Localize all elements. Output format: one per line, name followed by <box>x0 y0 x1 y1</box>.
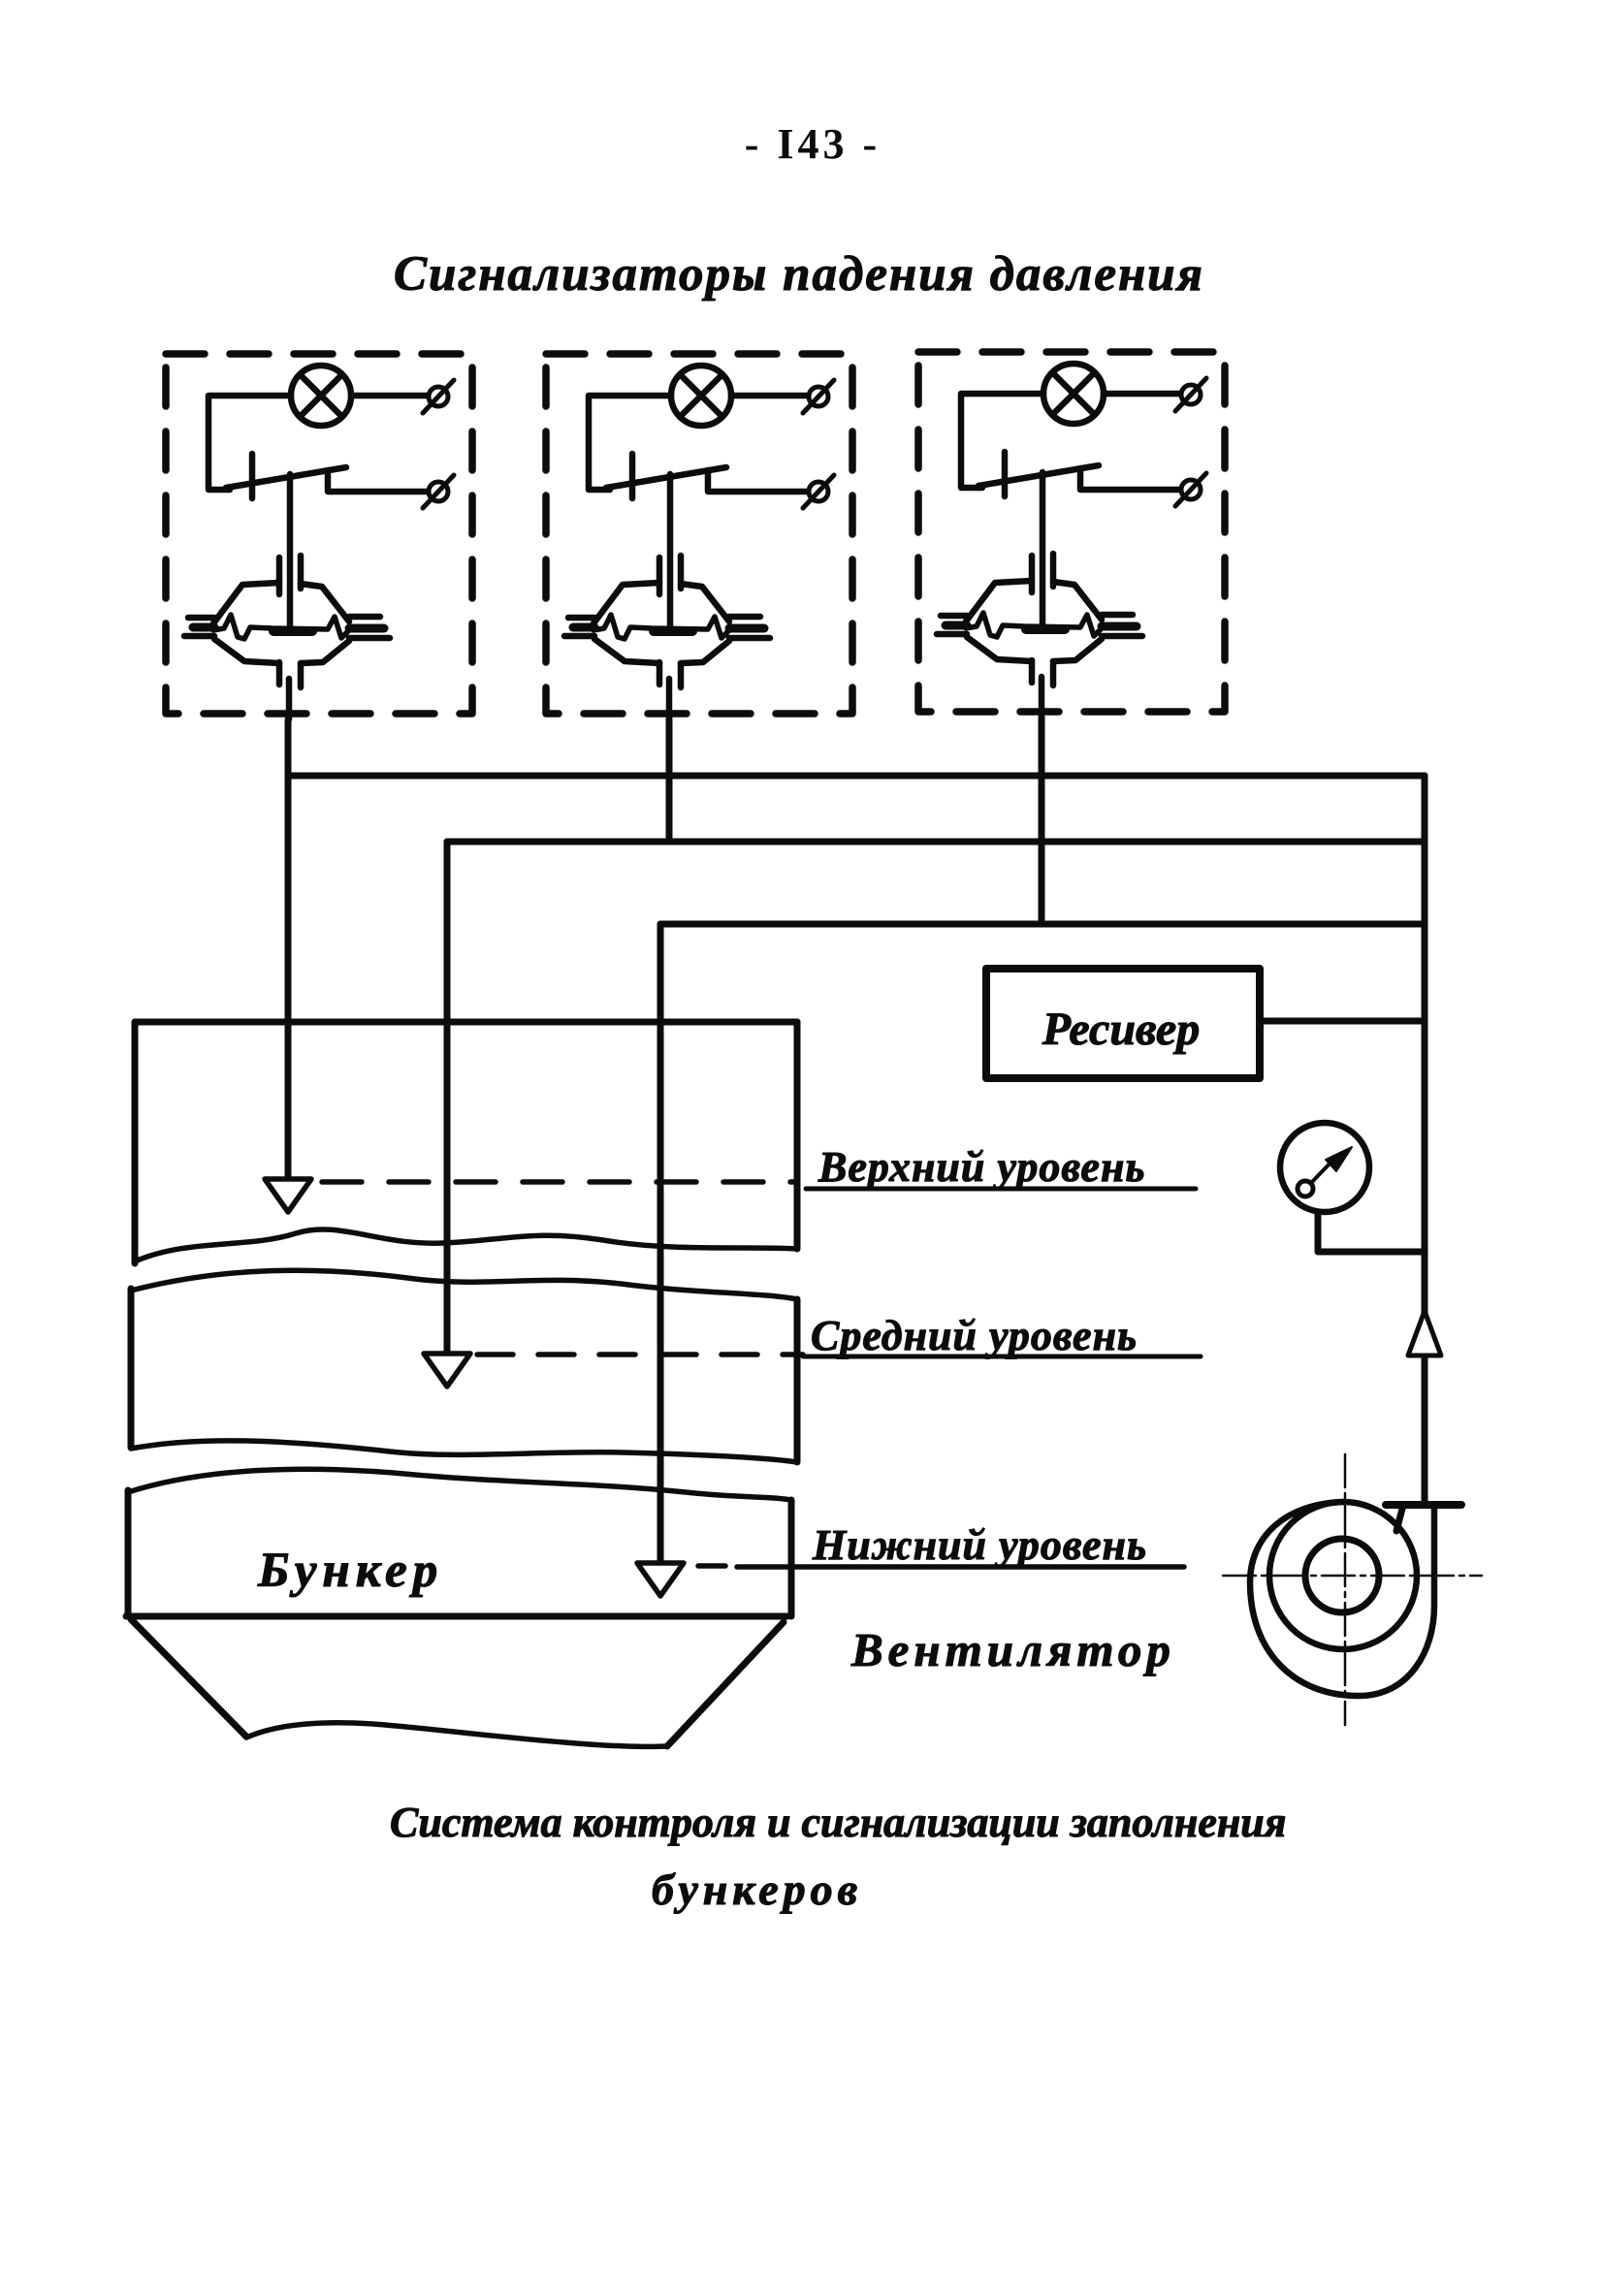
pressure sensor box 1 (dashed enclosure with lamp, switch, diaphragm) <box>166 354 472 719</box>
svg-text:Верхний уровень: Верхний уровень <box>818 1143 1146 1191</box>
arrow upper level probe <box>265 1179 311 1212</box>
arrow middle level probe <box>424 1354 470 1387</box>
middle level label underline <box>803 1355 1201 1359</box>
lower level label underline <box>737 1564 1184 1570</box>
receiver box <box>986 969 1260 1078</box>
wire: sensor 3 drop to lower level <box>657 924 664 1563</box>
svg-text:- I43 -: - I43 - <box>745 120 881 168</box>
svg-text:Вентилятор: Вентилятор <box>850 1623 1175 1676</box>
arrow lower level probe <box>637 1563 684 1596</box>
fan outer circle <box>1269 1502 1417 1649</box>
bunker top section walls <box>135 1019 797 1026</box>
wire: branch of sensor 1 to right bus <box>288 773 1425 780</box>
flow arrow on bus <box>1408 1311 1441 1355</box>
pressure gauge <box>1280 1123 1369 1212</box>
wire: sensor 2 impulse line down <box>666 719 673 842</box>
bunker middle section lower break line <box>131 1441 797 1462</box>
wire: sensor 2 horizontal run to bus <box>447 839 1425 845</box>
fan horizontal centerline <box>1223 1575 1482 1578</box>
svg-text:Сигнализаторы падения давления: Сигнализаторы падения давления <box>394 247 1204 302</box>
pressure sensor box 2 <box>546 354 852 719</box>
bunker lower section upper break line <box>128 1469 791 1500</box>
wire: sensor 3 horizontal run to bus <box>660 921 1425 928</box>
fan volute casing <box>1250 1502 1434 1696</box>
wire: sensor 1 impulse line down to upper level <box>285 719 292 1179</box>
bunker lower section walls <box>125 1490 132 1616</box>
hopper bottom break line <box>246 1723 667 1747</box>
upper level label underline <box>806 1187 1196 1192</box>
wire receiver to bus <box>1260 1018 1425 1025</box>
svg-text:Бункер: Бункер <box>257 1544 443 1598</box>
bunker top section break line <box>135 1229 797 1261</box>
wire: sensor 3 impulse line down <box>1039 717 1045 924</box>
fan outlet flange <box>1386 1501 1461 1509</box>
hopper left slant <box>131 1619 246 1737</box>
wire: right vertical bus to fan <box>1422 776 1428 1502</box>
wire: sensor 2 drop to middle level <box>444 842 451 1354</box>
bunker middle section upper break line <box>131 1270 797 1299</box>
fan outlet duct left edge <box>1396 1505 1403 1531</box>
svg-text:бункеров: бункеров <box>652 1865 862 1914</box>
svg-text:Нижний уровень: Нижний уровень <box>812 1521 1147 1569</box>
pressure sensor box 3 <box>918 352 1225 717</box>
svg-text:Система контроля и сигнализаци: Система контроля и сигнализации заполнен… <box>390 1799 1286 1846</box>
fan inner circle <box>1305 1539 1379 1612</box>
lower level dash <box>698 1563 725 1569</box>
wire gauge to bus <box>1318 1212 1425 1252</box>
svg-text:Средний уровень: Средний уровень <box>811 1312 1138 1359</box>
hopper right slant <box>667 1622 784 1746</box>
fan vertical centerline <box>1344 1454 1347 1725</box>
middle level dashed line <box>477 1352 803 1357</box>
svg-text:Ресивер: Ресивер <box>1042 1004 1200 1055</box>
bunker bottom edge <box>126 1613 787 1620</box>
bunker middle section walls <box>128 1289 135 1448</box>
upper level dashed line <box>322 1179 797 1185</box>
